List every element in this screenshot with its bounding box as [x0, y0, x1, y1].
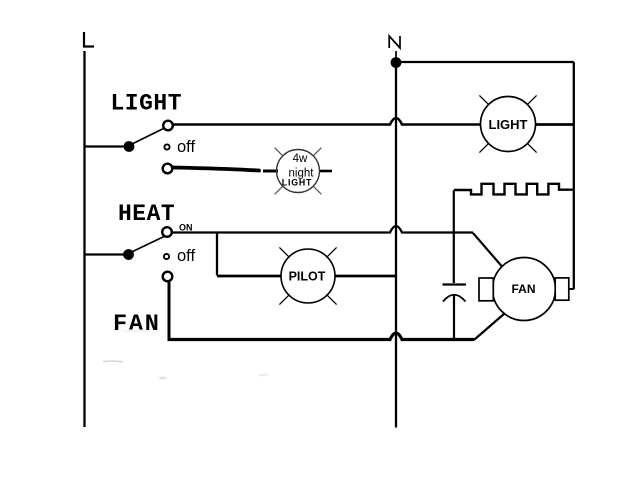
svg-text:LIGHT: LIGHT [111, 91, 183, 117]
svg-text:off: off [177, 138, 195, 156]
svg-text:HEAT: HEAT [118, 201, 175, 227]
svg-text:PILOT: PILOT [289, 270, 326, 284]
svg-text:4w: 4w [293, 153, 308, 165]
svg-text:LIGHT: LIGHT [489, 117, 528, 132]
svg-text:LIGHT: LIGHT [282, 178, 312, 188]
svg-text:off: off [177, 247, 195, 265]
svg-text:ON: ON [179, 223, 193, 233]
svg-text:FAN: FAN [113, 311, 161, 338]
svg-text:FAN: FAN [512, 282, 536, 296]
